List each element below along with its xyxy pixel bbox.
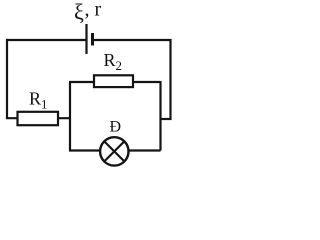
wire R2 horizontal xyxy=(69,81,161,83)
wire left outer vertical xyxy=(6,39,8,119)
wire right jog xyxy=(160,118,172,120)
resistor R1 xyxy=(18,112,59,125)
lamp D circle xyxy=(100,137,128,165)
svg-text:R2: R2 xyxy=(104,50,123,73)
wire inner right vertical xyxy=(159,81,161,151)
svg-text:R1: R1 xyxy=(29,89,48,112)
svg-text:Đ: Đ xyxy=(110,119,122,136)
wire top right segment xyxy=(92,39,172,41)
wire top left segment xyxy=(6,39,86,41)
svg-text:, r: , r xyxy=(85,0,102,21)
wire R1 horizontal xyxy=(6,117,70,119)
wire right outer vertical xyxy=(169,39,171,120)
resistor R2 xyxy=(94,75,133,87)
battery cell (xi, r) long plate xyxy=(85,24,87,54)
lamp D cross xyxy=(104,141,124,161)
wire lamp horizontal xyxy=(69,149,161,151)
battery cell short plate xyxy=(91,33,94,46)
svg-text:ξ: ξ xyxy=(74,0,84,24)
wire inner left vertical xyxy=(69,82,71,151)
